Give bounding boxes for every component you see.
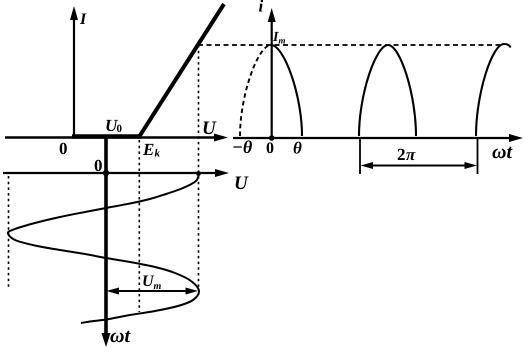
label U on first axis — [204, 122, 217, 135]
output pulse 2 — [359, 45, 416, 136]
input sine waveform (time downward) — [8, 173, 199, 323]
node dot where sine starts on second axis — [196, 171, 201, 176]
second U axis (input voltage axis of lower plot) — [3, 169, 229, 177]
Um amplitude double arrow — [107, 288, 199, 295]
dashed horizontal guide at peak current Im — [198, 44, 500, 46]
label 0 origin of transfer plot — [60, 143, 67, 154]
label 2pi: 2 — [398, 149, 405, 160]
label U on second axis — [236, 177, 249, 190]
period marker left tick — [359, 139, 361, 174]
label Ek break voltage: E — [143, 144, 154, 155]
I axis (vertical axis of transfer characteristic) — [70, 6, 78, 138]
label U0 threshold: subscript 0 — [117, 125, 122, 132]
output pulse 1 solid right branch — [271, 45, 302, 136]
label 0 origin of input plot — [95, 160, 102, 171]
label theta — [294, 142, 302, 154]
junction dot at origin of input waveform plot — [103, 170, 109, 176]
label omega-t bottom: omega — [110, 333, 123, 343]
label I — [80, 14, 87, 24]
dashed vertical guide at U (peak input) — [198, 45, 200, 290]
label omega-t right: t — [507, 147, 512, 158]
label i — [259, 0, 263, 11]
period double arrow 2pi — [361, 162, 478, 169]
label Um amplitude: U — [143, 276, 154, 287]
diode transfer curve: conducting diagonal segment — [139, 4, 224, 137]
label 2pi: pi — [406, 152, 416, 160]
output pulse 1 dashed left branch (before t=0) — [240, 45, 271, 136]
label omega-t bottom: t — [125, 331, 130, 342]
i axis (vertical axis of output plot) — [268, 8, 276, 138]
label Um amplitude: subscript m — [154, 284, 161, 289]
label 0 output origin — [267, 142, 274, 153]
label Ek break voltage: subscript k — [155, 149, 160, 157]
diode transfer curve: flat segment below threshold — [72, 134, 141, 139]
U axis (horizontal axis of transfer characteristic) — [5, 134, 228, 142]
label Im peak: I — [273, 32, 279, 41]
period marker right tick — [477, 139, 479, 174]
label minus theta — [233, 140, 252, 153]
origin dot of output plot — [269, 135, 275, 141]
dashed vertical guide at negative input peak — [8, 176, 10, 289]
label U0 threshold: U — [106, 120, 118, 131]
omega-t axis (thick vertical time axis of input waveform) — [102, 138, 111, 348]
label omega-t right: omega — [492, 149, 505, 159]
output pulse 3 — [476, 44, 511, 136]
dashed vertical guide at Ek — [138, 140, 140, 312]
label Im peak: subscript m — [279, 39, 285, 43]
omega-t axis (horizontal axis of output plot) — [233, 134, 523, 142]
